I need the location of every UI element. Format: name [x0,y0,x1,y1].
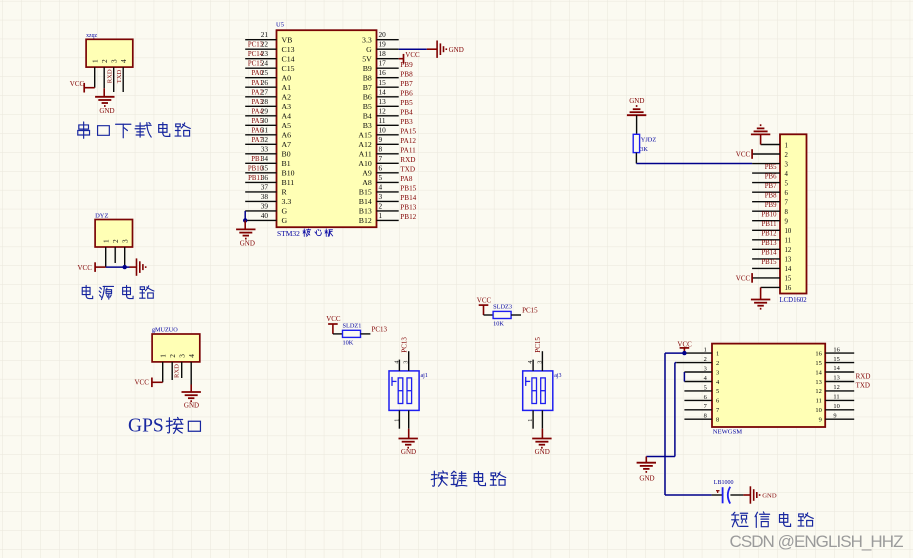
wire pin19 to GND [399,48,427,50]
LCD1602 pin 14 [752,259,792,273]
U5 pin 13 (B5) [363,97,413,111]
resistor YJDZ 3K [633,134,656,153]
wire pin2 to ground [103,88,105,97]
svg-text:GND: GND [535,448,550,456]
button aj1 [389,371,419,411]
svg-text:B7: B7 [363,83,372,92]
svg-text:3: 3 [178,354,187,358]
U5 pin 33 (B0) [245,144,291,158]
svg-text:A4: A4 [282,111,292,120]
svg-text:4: 4 [528,361,534,364]
svg-text:R: R [282,188,288,197]
svg-text:23: 23 [261,49,269,58]
svg-text:12: 12 [785,247,792,254]
svg-text:PC13: PC13 [372,325,388,333]
svg-text:11: 11 [833,394,839,401]
VCC bar [403,54,405,64]
svg-text:1: 1 [704,347,707,354]
LCD1602 pin 6 [752,183,788,197]
svg-text:PB7: PB7 [765,183,777,190]
svg-text:28: 28 [261,97,269,106]
wire cap to ground [730,494,743,496]
svg-text:B3: B3 [363,121,372,130]
svg-text:3: 3 [704,365,707,372]
svg-text:B10: B10 [282,168,295,177]
svg-text:3: 3 [537,361,543,364]
svg-text:PC13: PC13 [400,337,408,353]
wire to ground stem [244,220,246,229]
svg-text:PB3: PB3 [400,118,413,126]
svg-text:3: 3 [110,59,119,63]
svg-text:PA8: PA8 [400,175,413,183]
svg-text:DYZ: DYZ [95,213,108,220]
LCD1602 pin 12 [752,240,792,254]
svg-text:35: 35 [261,163,269,172]
svg-text:13: 13 [815,379,821,386]
svg-text:12: 12 [379,106,387,115]
svg-text:U5: U5 [276,22,284,29]
svg-text:PC15: PC15 [522,306,538,314]
svg-text:31: 31 [261,125,269,134]
aj3 pin 1 [532,410,534,428]
MUZUO pin 3 [178,354,187,378]
LCD1602 pin 10 [752,221,792,235]
svg-text:RXD: RXD [400,156,415,164]
svg-text:PB7: PB7 [400,80,413,88]
svg-text:8: 8 [716,417,719,424]
svg-text:PB8: PB8 [400,70,413,78]
xzqz pin 1 [91,59,100,88]
NEWGSM pin 3 [684,365,719,376]
wire pin4 to ground [190,385,192,393]
svg-text:15: 15 [379,78,387,87]
svg-text:2: 2 [168,354,177,358]
svg-text:aj3: aj3 [554,373,561,379]
svg-text:GND: GND [184,402,199,410]
aj3 pin 4 [532,360,534,371]
svg-text:1: 1 [91,59,100,63]
wire to ground [130,266,137,268]
svg-text:B8: B8 [363,73,372,82]
U5 pin 31 (A6) [245,125,291,139]
power VCC at U5 pin 18 [399,58,404,60]
svg-text:10K: 10K [493,321,504,328]
svg-text:B5: B5 [363,102,372,111]
NEWGSM pin 11 [816,394,855,405]
svg-text:33: 33 [261,144,269,153]
svg-text:24: 24 [261,59,269,68]
svg-text:3: 3 [379,192,383,201]
VCC at LCD pin15 [751,273,753,283]
NEWGSM pin 10 [815,403,854,414]
svg-text:B14: B14 [359,197,372,206]
svg-text:3K: 3K [640,146,648,153]
svg-text:RXD: RXD [856,372,871,380]
svg-text:40: 40 [261,211,269,220]
svg-text:B6: B6 [363,92,372,101]
svg-text:1: 1 [379,211,383,220]
svg-text:A11: A11 [359,149,372,158]
svg-text:VB: VB [282,35,293,44]
svg-text:30: 30 [261,116,269,125]
svg-text:B11: B11 [282,178,295,187]
svg-text:6: 6 [379,163,383,172]
svg-text:aj1: aj1 [421,373,428,379]
svg-text:27: 27 [261,87,269,96]
svg-text:PB6: PB6 [400,89,413,97]
svg-text:B15: B15 [359,188,372,197]
svg-text:5: 5 [379,173,383,182]
U5 pin 34 (B1) [245,154,291,168]
svg-text:1: 1 [394,419,400,422]
U5 pin 12 (B4) [363,106,413,120]
svg-text:VCC: VCC [70,80,85,88]
svg-text:G: G [366,45,372,54]
U5 pin 1 (B12) [359,211,417,225]
svg-text:14: 14 [785,266,792,273]
svg-text:PA11: PA11 [400,146,416,154]
svg-text:GPS: GPS [128,416,164,437]
LCD1602 pin 16 [761,285,792,292]
svg-text:GND: GND [762,493,777,500]
svg-text:10: 10 [815,407,821,414]
svg-text:2: 2 [100,59,109,63]
U5 pin 23 (C14) [245,49,294,63]
svg-text:4: 4 [379,182,383,191]
wire pin1 to capacitor [665,352,684,354]
U5 pin 16 (B8) [363,68,413,82]
U5 pin 17 (B9) [363,59,413,73]
ground right of LB1000 [750,486,759,503]
DYZ pin 3 [121,239,130,267]
svg-text:TXD: TXD [400,165,415,173]
LCD1602 pin 1 [761,142,788,149]
NEWGSM pin 16 [815,346,854,357]
NEWGSM pin 8 [684,413,719,424]
U5 pin 26 (A1) [245,78,291,92]
svg-text:9: 9 [785,219,789,226]
svg-text:B1: B1 [282,159,291,168]
svg-text:34: 34 [261,154,269,163]
svg-text:NEWGSM: NEWGSM [713,428,742,435]
U5 pin 2 (B13) [359,201,417,215]
resistor SLDZ1 10K [343,323,362,347]
svg-text:RXD: RXD [173,364,180,378]
U5 pin 6 (A9) [362,163,415,177]
svg-text:A10: A10 [358,159,372,168]
svg-text:22: 22 [261,40,269,49]
svg-text:G: G [282,207,288,216]
svg-text:16: 16 [785,285,792,292]
svg-text:A15: A15 [358,130,372,139]
svg-text:15: 15 [785,276,792,283]
svg-text:8: 8 [785,209,789,216]
svg-text:3: 3 [404,361,410,364]
caption: serial download circuit [78,122,90,138]
svg-text:GND: GND [639,475,654,483]
U5 pin 28 (A3) [245,97,291,111]
wire resistor to LCD pin3 [635,153,637,164]
U5 pin 18 (5V) [362,49,398,63]
U5 pin 19 (G) [366,40,399,54]
ground above LCD pin1 [760,134,762,144]
svg-text:3: 3 [785,161,789,168]
svg-text:G: G [282,216,288,225]
svg-text:TXD: TXD [856,382,870,390]
svg-text:B12: B12 [359,216,372,225]
svg-text:2: 2 [785,152,789,159]
U5 pin 7 (A10) [358,154,415,168]
svg-text:PB12: PB12 [761,231,777,238]
ground below aj1 [399,439,418,448]
svg-text:A3: A3 [282,102,292,111]
svg-text:YJDZ: YJDZ [641,136,657,143]
aj1 pin 4 [398,360,400,371]
svg-text:8: 8 [704,413,707,420]
svg-text:CSDN @ENGLISH_HHZ: CSDN @ENGLISH_HHZ [730,532,904,551]
ground right of DYZ [137,258,146,275]
U5 pin 30 (A5) [245,116,291,130]
NEWGSM pin 12 [815,384,854,395]
U5 pin 10 (A15) [358,125,416,139]
svg-text:38: 38 [261,192,269,201]
svg-text:VCC: VCC [736,151,751,159]
ground left of NEWGSM [637,463,656,472]
U5 pin 27 (A2) [245,87,291,101]
svg-text:B13: B13 [359,207,372,216]
capacitor LB1000 [712,480,734,504]
svg-text:PB11: PB11 [762,221,777,228]
svg-text:2: 2 [704,356,707,363]
svg-text:16: 16 [379,68,387,77]
ground below U5 [236,229,255,238]
aj1 pin 3 [408,351,410,371]
svg-text:4: 4 [394,361,400,364]
svg-text:11: 11 [785,238,792,245]
svg-text:SLDZ3: SLDZ3 [493,304,512,311]
button aj3 [523,371,553,411]
LCD1602 pin 8 [752,202,788,216]
svg-text:VCC: VCC [477,296,492,304]
svg-text:PA12: PA12 [400,137,416,145]
svg-text:PB5: PB5 [765,164,777,171]
U5 pin 8 (A11) [359,144,416,158]
LCD1602 pin 5 [752,173,788,187]
svg-text:VCC: VCC [405,51,420,59]
svg-text:gMUZUO: gMUZUO [152,327,178,334]
svg-text:A5: A5 [282,121,292,130]
svg-text:B0: B0 [282,149,291,158]
svg-text:3: 3 [121,239,130,243]
LCD1602 pin 7 [752,193,788,207]
svg-text:A1: A1 [282,83,292,92]
caption: SMS circuit [732,512,748,527]
svg-text:2: 2 [111,239,120,243]
svg-text:36: 36 [261,173,269,182]
ground below LCD pin16 [760,287,762,299]
svg-text:32: 32 [261,135,269,144]
wire loop pins 3-4 [683,372,685,382]
wire [636,115,638,134]
aj1 pin 2 to ground [408,410,410,428]
svg-text:A8: A8 [362,178,372,187]
U5 pin 21 (VB) [245,30,292,44]
U5 pin 35 (B10) [245,163,294,177]
ground right of U5 pin 19 [437,41,446,58]
U5 pin 20 (3.3) [362,30,399,44]
svg-text:PB5: PB5 [400,99,413,107]
xzqz pin 2 [100,59,109,88]
svg-text:1: 1 [785,142,788,149]
svg-text:10K: 10K [343,340,354,347]
IC LCD1602 body [780,134,807,293]
svg-text:VCC: VCC [326,315,341,323]
svg-text:A12: A12 [358,140,372,149]
svg-text:21: 21 [261,30,269,39]
svg-text:10: 10 [379,125,387,134]
VCC at LCD pin2 [751,149,753,159]
DYZ pin 2 [111,239,120,263]
svg-text:12: 12 [815,388,821,395]
svg-text:RXD: RXD [106,69,113,83]
NEWGSM pin 14 [815,365,854,376]
svg-text:PB9: PB9 [765,202,777,209]
svg-text:39: 39 [261,201,269,210]
U5 pin 14 (B6) [363,87,413,101]
svg-text:3.3: 3.3 [362,35,372,44]
svg-text:15: 15 [833,356,839,363]
svg-text:12: 12 [833,384,839,391]
IC NEWGSM body [712,344,825,427]
svg-text:PB15: PB15 [761,259,777,266]
svg-text:PB9: PB9 [400,61,413,69]
svg-text:7: 7 [785,200,789,207]
NEWGSM pin 7 [684,403,720,414]
svg-text:PB13: PB13 [761,240,777,247]
svg-text:16: 16 [833,346,839,353]
NEWGSM pin 2 [676,356,719,367]
svg-text:GND: GND [240,239,255,247]
svg-text:19: 19 [379,40,387,49]
svg-text:PA15: PA15 [400,127,416,135]
svg-text:A6: A6 [282,130,292,139]
MUZUO pin 2 [168,354,177,380]
MUZUO pin 4 [187,354,196,385]
svg-text:1: 1 [528,419,534,422]
U5 pin 24 (C15) [245,59,294,73]
svg-text:PB15: PB15 [400,185,416,193]
resistor SLDZ3 10K [493,304,512,328]
svg-text:2: 2 [379,201,383,210]
svg-text:4: 4 [187,354,196,358]
ground below aj3 [532,439,551,448]
junction node pins 39/40 [243,218,247,222]
svg-text:A2: A2 [282,92,292,101]
svg-text:PB12: PB12 [400,213,416,221]
svg-text:11: 11 [816,398,822,405]
U5 pin 25 (A0) [245,68,291,82]
svg-text:LB1000: LB1000 [714,480,734,486]
U5 pin 40 (G) [245,211,287,225]
svg-text:3.3: 3.3 [282,197,292,206]
svg-text:STM32: STM32 [277,229,300,238]
U5 pin 32 (A7) [245,135,291,149]
svg-text:25: 25 [261,68,269,77]
U5 pin 37 (R) [245,182,287,196]
aj3 pin 2 to ground [541,410,543,428]
aj1 pin 1 [398,410,400,428]
svg-text:PC15: PC15 [534,337,542,353]
svg-text:GND: GND [99,107,114,115]
junction at pin1 [682,351,686,355]
NEWGSM pin 1 [684,347,719,358]
caption: button circuit [431,471,447,486]
svg-text:14: 14 [379,87,387,96]
wire [361,333,371,335]
U5 pin 36 (B11) [245,173,294,187]
NEWGSM pin 15 [815,356,854,367]
svg-text:PB13: PB13 [400,204,416,212]
NEWGSM pin 5 [684,384,719,395]
svg-text:14: 14 [815,369,822,376]
svg-text:6: 6 [785,190,789,197]
svg-text:11: 11 [379,116,386,125]
IC U5 STM32 core board body [277,30,377,227]
LCD1602 pin 11 [752,231,791,245]
LCD1602 pin 15 [752,276,792,283]
svg-text:PB6: PB6 [765,173,777,180]
NEWGSM pin 9 [819,412,855,423]
MUZUO pin 1 [159,354,168,383]
svg-text:10: 10 [785,228,792,235]
svg-text:PB8: PB8 [765,193,777,200]
svg-text:13: 13 [833,375,839,382]
NEWGSM pin 6 [684,394,719,405]
U5 pin 9 (A12) [358,135,416,149]
svg-text:5V: 5V [362,54,372,63]
LCD1602 pin 13 [752,250,792,264]
svg-text:13: 13 [785,257,792,264]
svg-text:9: 9 [833,412,836,419]
xzqz pin 4 [119,59,128,92]
svg-text:C13: C13 [282,45,295,54]
aj3 pin 3 [541,351,543,371]
svg-text:A7: A7 [282,140,292,149]
LCD1602 pin 2 [752,152,788,159]
svg-text:GND: GND [449,46,464,54]
svg-text:5: 5 [716,388,719,395]
svg-text:PB14: PB14 [400,194,416,202]
svg-text:17: 17 [379,59,387,68]
LCD1602 pin 3 [752,161,788,168]
svg-text:TXD: TXD [116,70,123,84]
U5 pin 39 (G) [245,201,287,220]
svg-text:C14: C14 [282,54,295,63]
svg-text:VCC: VCC [736,275,751,283]
svg-text:xzqz: xzqz [86,33,97,39]
svg-text:PB14: PB14 [761,250,777,257]
U5 pin 15 (B7) [363,78,413,92]
LCD1602 pin 4 [752,164,788,178]
svg-text:VCC: VCC [78,264,93,272]
svg-text:PB4: PB4 [400,108,413,116]
U5 pin 38 (3.3) [245,192,291,206]
svg-text:8: 8 [379,144,383,153]
svg-text:4: 4 [119,59,128,63]
svg-text:GND: GND [401,448,416,456]
svg-text:15: 15 [815,360,821,367]
DYZ pin 1 [102,239,111,267]
